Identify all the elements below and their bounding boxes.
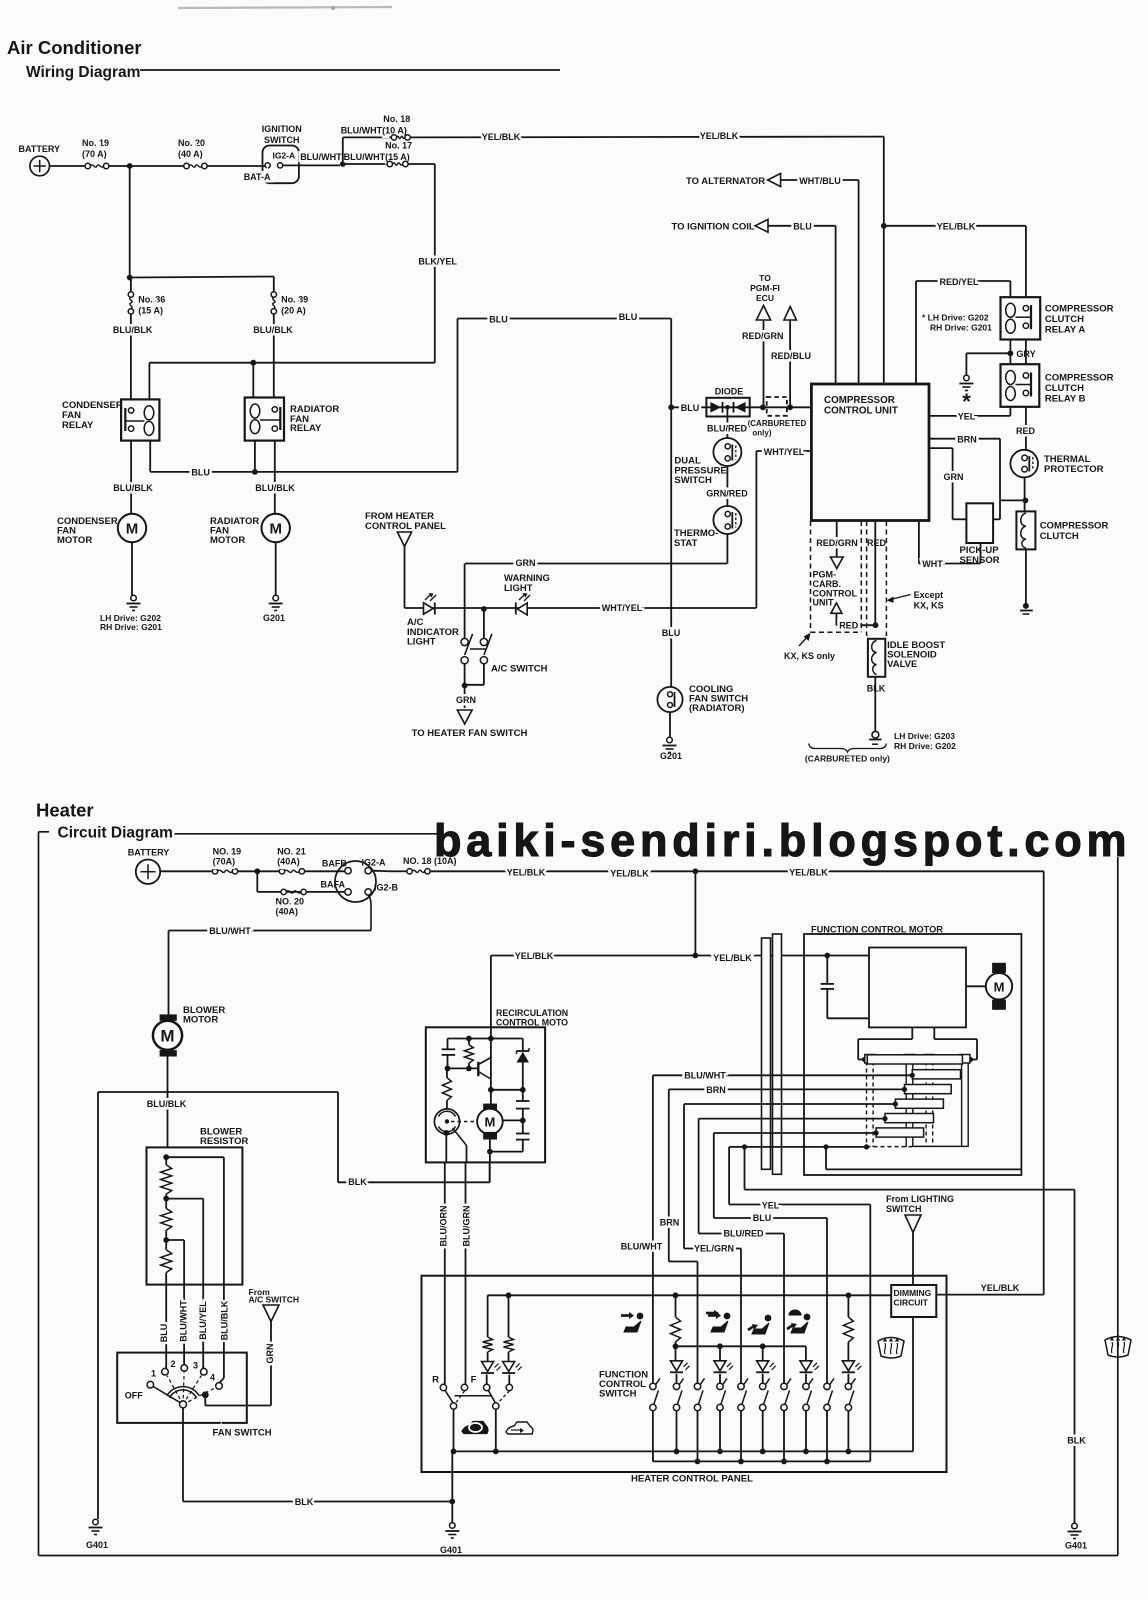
svg-text:No. 19: No. 19 <box>82 138 109 148</box>
svg-text:BLU: BLU <box>159 1324 169 1343</box>
svg-text:WHT: WHT <box>922 559 943 569</box>
svg-text:DIMMING: DIMMING <box>894 1288 932 1298</box>
svg-text:BLU/WHT: BLU/WHT <box>300 152 342 162</box>
svg-text:KX, KS: KX, KS <box>914 601 944 611</box>
svg-text:BLU/YEL: BLU/YEL <box>198 1301 208 1340</box>
svg-text:IGNITION: IGNITION <box>262 124 302 134</box>
svg-text:BATTERY: BATTERY <box>19 144 61 154</box>
svg-text:BAFA: BAFA <box>321 880 346 890</box>
svg-text:No. 17: No. 17 <box>385 141 412 151</box>
svg-text:BAFB: BAFB <box>322 859 347 869</box>
svg-text:VALVE: VALVE <box>887 659 917 670</box>
svg-text:4: 4 <box>210 1373 215 1383</box>
svg-text:M: M <box>484 1115 495 1130</box>
svg-text:CLUTCH: CLUTCH <box>1040 531 1079 542</box>
svg-text:RELAY: RELAY <box>62 420 94 431</box>
svg-text:BLU/GRN: BLU/GRN <box>461 1206 471 1247</box>
svg-text:CONTROL PANEL: CONTROL PANEL <box>365 521 446 532</box>
svg-text:3: 3 <box>193 1361 198 1371</box>
svg-text:MOTOR: MOTOR <box>57 535 92 546</box>
svg-text:BLU: BLU <box>489 314 508 324</box>
svg-text:RELAY: RELAY <box>290 423 322 434</box>
svg-text:CONTROL UNIT: CONTROL UNIT <box>824 406 898 417</box>
svg-text:Except: Except <box>914 590 944 600</box>
svg-text:BLK: BLK <box>867 684 886 694</box>
svg-text:RH Drive: G201: RH Drive: G201 <box>930 323 992 333</box>
svg-text:CIRCUIT: CIRCUIT <box>894 1298 929 1308</box>
svg-text:BLU/ORN: BLU/ORN <box>438 1206 448 1247</box>
svg-text:(40A): (40A) <box>277 857 300 867</box>
svg-text:YEL: YEL <box>762 1200 780 1210</box>
svg-text:Wiring Diagram: Wiring Diagram <box>26 64 140 81</box>
svg-text:RED/YEL: RED/YEL <box>939 277 979 287</box>
svg-text:BLU/WHT: BLU/WHT <box>684 1071 726 1081</box>
svg-text:SWITCH: SWITCH <box>264 135 300 145</box>
svg-text:NO. 21: NO. 21 <box>277 847 306 857</box>
svg-text:YEL/BLK: YEL/BLK <box>700 131 739 141</box>
svg-text:RELAY A: RELAY A <box>1045 325 1085 336</box>
svg-text:BRN: BRN <box>706 1085 726 1095</box>
svg-text:RED/GRN: RED/GRN <box>816 538 858 548</box>
svg-text:CONTROL MOTO: CONTROL MOTO <box>496 1018 568 1028</box>
svg-text:2: 2 <box>170 1359 175 1369</box>
svg-text:FAN SWITCH: FAN SWITCH <box>213 1428 272 1439</box>
svg-text:YEL/BLK: YEL/BLK <box>981 1283 1020 1293</box>
svg-text:RESISTOR: RESISTOR <box>200 1136 249 1147</box>
svg-text:RELAY B: RELAY B <box>1045 394 1086 405</box>
svg-text:RED/BLU: RED/BLU <box>771 351 811 361</box>
svg-text:MOTOR: MOTOR <box>210 535 245 546</box>
svg-text:BLU/BLK: BLU/BLK <box>113 483 153 493</box>
svg-text:YEL: YEL <box>958 412 976 422</box>
svg-text:KX, KS only: KX, KS only <box>784 651 835 661</box>
svg-text:PROTECTOR: PROTECTOR <box>1044 464 1104 475</box>
svg-text:G201: G201 <box>263 613 285 623</box>
svg-text:MOTOR: MOTOR <box>183 1015 218 1026</box>
svg-text:BLU/WHT(10 A): BLU/WHT(10 A) <box>341 126 407 136</box>
svg-text:BLU: BLU <box>191 468 210 478</box>
svg-text:BLK/YEL: BLK/YEL <box>418 256 457 266</box>
svg-text:No. 18: No. 18 <box>383 114 410 124</box>
svg-text:BLU/BLK: BLU/BLK <box>255 483 295 493</box>
svg-text:COMPRESSOR: COMPRESSOR <box>1045 373 1114 384</box>
svg-text:1: 1 <box>151 1369 156 1379</box>
svg-text:WHT/YEL: WHT/YEL <box>764 447 805 457</box>
svg-text:PGM-: PGM- <box>813 570 837 580</box>
svg-text:BLK: BLK <box>348 1177 367 1187</box>
svg-text:(70 A): (70 A) <box>82 149 107 159</box>
svg-text:Heater: Heater <box>36 800 94 821</box>
svg-text:* LH Drive: G202: * LH Drive: G202 <box>922 313 989 323</box>
svg-text:BLU/BLK: BLU/BLK <box>220 1300 230 1340</box>
svg-text:RED: RED <box>1016 426 1036 436</box>
svg-text:TO: TO <box>759 273 771 283</box>
svg-text:G401: G401 <box>1065 1541 1087 1551</box>
svg-text:M: M <box>994 980 1005 995</box>
svg-text:TO HEATER FAN SWITCH: TO HEATER FAN SWITCH <box>412 728 528 739</box>
svg-text:A/C SWITCH: A/C SWITCH <box>491 664 548 675</box>
svg-text:BLU/BLK: BLU/BLK <box>253 325 293 335</box>
svg-text:BLU: BLU <box>662 628 681 638</box>
svg-text:YEL/BLK: YEL/BLK <box>507 868 546 878</box>
svg-text:A/C SWITCH: A/C SWITCH <box>249 1295 300 1305</box>
svg-text:(CARBURETED: (CARBURETED <box>748 419 807 428</box>
svg-text:ECU: ECU <box>756 293 774 303</box>
svg-text:BLU/RED: BLU/RED <box>707 424 747 434</box>
svg-text:BLU: BLU <box>619 312 638 322</box>
svg-text:IG2-A: IG2-A <box>362 857 387 867</box>
svg-text:G401: G401 <box>86 1540 108 1550</box>
svg-text:BAT-A: BAT-A <box>244 172 271 182</box>
svg-text:(40A): (40A) <box>276 907 299 917</box>
svg-text:NO. 20: NO. 20 <box>276 897 305 907</box>
svg-text:BLU: BLU <box>753 1213 772 1223</box>
svg-text:(40 A): (40 A) <box>178 149 203 159</box>
svg-text:RH Drive: G202: RH Drive: G202 <box>894 741 956 751</box>
svg-text:TO IGNITION COIL: TO IGNITION COIL <box>672 222 755 233</box>
svg-text:BLK: BLK <box>1067 1436 1086 1446</box>
svg-text:BRN: BRN <box>957 434 977 444</box>
svg-text:R: R <box>432 1375 439 1386</box>
svg-text:GRN: GRN <box>265 1344 275 1364</box>
svg-text:G401: G401 <box>440 1545 462 1555</box>
svg-text:HEATER CONTROL PANEL: HEATER CONTROL PANEL <box>631 1474 753 1485</box>
svg-text:YEL/BLK: YEL/BLK <box>937 222 976 232</box>
svg-text:(CARBURETED only): (CARBURETED only) <box>805 753 890 763</box>
svg-text:IG2-B: IG2-B <box>374 883 399 893</box>
svg-text:M: M <box>126 521 139 538</box>
svg-text:BLU: BLU <box>793 222 812 232</box>
svg-text:GRN: GRN <box>516 558 536 568</box>
svg-text:From LIGHTING: From LIGHTING <box>886 1194 954 1204</box>
svg-text:NO. 19: NO. 19 <box>213 847 242 857</box>
svg-text:G201: G201 <box>660 751 682 761</box>
svg-text:CLUTCH: CLUTCH <box>1045 314 1084 325</box>
svg-text:BLU/WHT: BLU/WHT <box>179 1300 189 1342</box>
svg-text:RED: RED <box>867 538 887 548</box>
svg-text:BLK: BLK <box>295 1497 314 1507</box>
svg-text:LIGHT: LIGHT <box>407 637 436 648</box>
svg-text:YEL/BLK: YEL/BLK <box>713 953 752 963</box>
svg-text:(RADIATOR): (RADIATOR) <box>689 703 745 714</box>
svg-text:FUNCTION CONTROL MOTOR: FUNCTION CONTROL MOTOR <box>811 925 943 935</box>
svg-text:STAT: STAT <box>674 538 698 549</box>
svg-text:WHT/BLU: WHT/BLU <box>799 176 841 186</box>
svg-text:(20 A): (20 A) <box>281 305 306 315</box>
svg-text:only): only) <box>752 429 771 438</box>
svg-text:WHT/YEL: WHT/YEL <box>602 603 643 613</box>
svg-text:Air Conditioner: Air Conditioner <box>7 37 142 58</box>
svg-text:IG2-A: IG2-A <box>272 151 295 161</box>
svg-text:SWITCH: SWITCH <box>599 1389 637 1400</box>
svg-text:BLU/BLK: BLU/BLK <box>113 325 153 335</box>
svg-text:GRN/RED: GRN/RED <box>706 488 748 498</box>
svg-text:YEL/BLK: YEL/BLK <box>482 132 521 142</box>
svg-text:DIODE: DIODE <box>715 387 744 397</box>
svg-text:RECIRCULATION: RECIRCULATION <box>496 1008 568 1018</box>
svg-text:TO ALTERNATOR: TO ALTERNATOR <box>686 176 765 187</box>
svg-text:Circuit Diagram: Circuit Diagram <box>58 825 173 842</box>
svg-text:F: F <box>471 1375 477 1386</box>
svg-text:BLU/WHT: BLU/WHT <box>621 1242 663 1252</box>
svg-text:CLUTCH: CLUTCH <box>1045 383 1084 394</box>
svg-text:(70A): (70A) <box>213 857 236 867</box>
svg-text:LH Drive: G203: LH Drive: G203 <box>894 731 955 741</box>
svg-text:YEL/BLK: YEL/BLK <box>515 951 554 961</box>
svg-text:RED: RED <box>839 620 859 630</box>
svg-text:BRN: BRN <box>660 1217 680 1227</box>
svg-text:PGM-FI: PGM-FI <box>750 283 780 293</box>
svg-text:RED/GRN: RED/GRN <box>742 331 784 341</box>
svg-text:UNIT: UNIT <box>813 598 834 608</box>
svg-text:M: M <box>160 1027 174 1046</box>
svg-text:RH Drive: G201: RH Drive: G201 <box>100 622 162 632</box>
svg-text:M: M <box>269 521 282 538</box>
svg-text:baiki-sendiri.blogspot.com: baiki-sendiri.blogspot.com <box>434 815 1131 866</box>
svg-text:No. 36: No. 36 <box>138 294 165 304</box>
svg-text:YEL/BLK: YEL/BLK <box>789 868 828 878</box>
svg-text:OFF: OFF <box>125 1391 143 1401</box>
svg-text:BLU/BLK: BLU/BLK <box>147 1099 187 1109</box>
svg-text:*: * <box>962 389 971 414</box>
svg-text:YEL/BLK: YEL/BLK <box>610 869 649 879</box>
svg-text:COMPRESSOR: COMPRESSOR <box>1045 304 1114 315</box>
svg-text:BATTERY: BATTERY <box>128 848 170 858</box>
svg-text:BLU/WHT(15 A): BLU/WHT(15 A) <box>344 152 410 162</box>
svg-text:(15 A): (15 A) <box>138 305 163 315</box>
svg-text:BLU/RED: BLU/RED <box>724 1228 764 1238</box>
svg-text:COMPRESSOR: COMPRESSOR <box>824 395 895 406</box>
svg-text:BLU/WHT: BLU/WHT <box>209 926 251 936</box>
svg-text:YEL/GRN: YEL/GRN <box>694 1243 734 1253</box>
svg-text:GRN: GRN <box>456 695 476 705</box>
svg-text:LIGHT: LIGHT <box>504 583 533 594</box>
svg-text:SWITCH: SWITCH <box>674 475 712 486</box>
svg-text:GRN: GRN <box>944 472 964 482</box>
svg-text:No. 39: No. 39 <box>281 294 308 304</box>
svg-text:BLU: BLU <box>681 403 700 413</box>
svg-text:No. 20: No. 20 <box>178 138 205 148</box>
svg-text:SWITCH: SWITCH <box>886 1204 922 1214</box>
